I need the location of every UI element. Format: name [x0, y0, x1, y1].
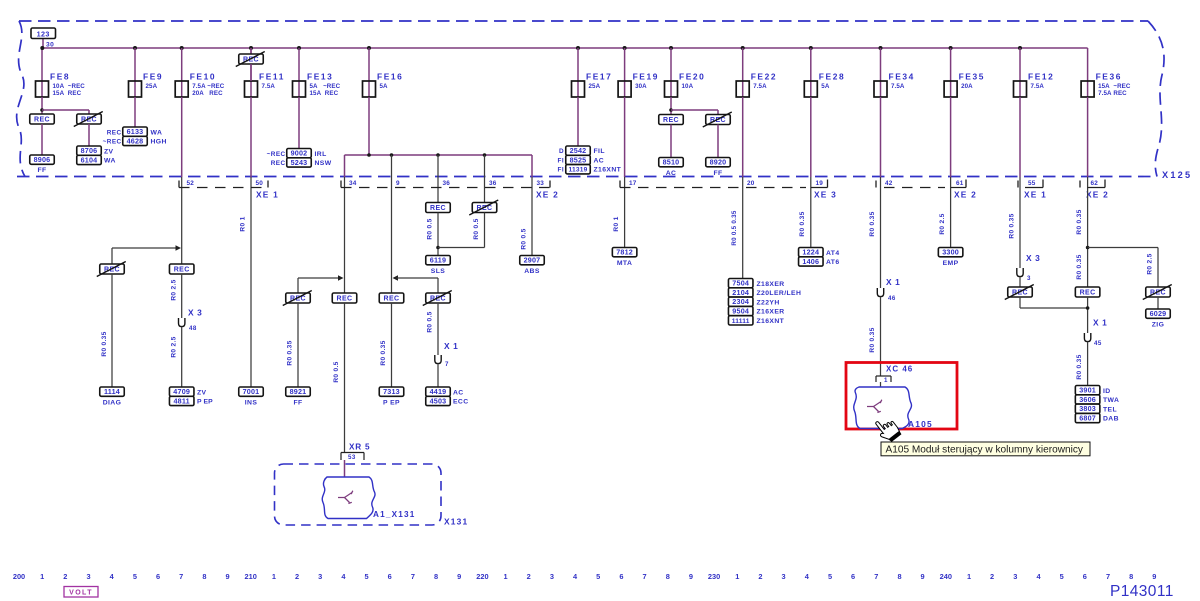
svg-text:XR 5: XR 5 — [349, 443, 370, 452]
VOLT legend box — [64, 587, 98, 598]
svg-text:8525: 8525 — [570, 155, 587, 164]
red highlight box around A105 — [846, 363, 957, 430]
svg-text:7: 7 — [411, 572, 415, 581]
svg-text:123: 123 — [37, 30, 50, 39]
svg-text:R0 0.35: R0 0.35 — [380, 340, 387, 365]
fuse FE35 at x=950.6 — [949, 46, 953, 50]
wire FE13 output — [298, 97, 300, 149]
svg-text:4: 4 — [1036, 572, 1041, 581]
svg-text:R0 0.35: R0 0.35 — [1076, 254, 1083, 279]
svg-text:~REC: ~REC — [267, 151, 286, 158]
svg-text:Z22YH: Z22YH — [757, 299, 780, 306]
svg-text:R0 0.5: R0 0.5 — [473, 218, 480, 239]
svg-text:1: 1 — [504, 572, 508, 581]
svg-text:62: 62 — [1091, 180, 1099, 187]
svg-text:EMP: EMP — [943, 260, 959, 267]
svg-text:2: 2 — [63, 572, 67, 581]
svg-text:240: 240 — [940, 572, 952, 581]
svg-text:7.5A ~REC: 7.5A ~REC — [192, 83, 225, 90]
svg-text:52: 52 — [187, 180, 195, 187]
svg-text:4503: 4503 — [430, 396, 447, 405]
wire R0 2.5 to X3 — [181, 274, 183, 318]
svg-text:8906: 8906 — [34, 155, 51, 164]
connector XE2 (pins 42, 61) — [875, 181, 877, 188]
svg-text:3803: 3803 — [1079, 404, 1096, 413]
fuse box X125 border — [17, 21, 1164, 177]
svg-text:6133: 6133 — [127, 127, 144, 136]
svg-text:46: 46 — [888, 295, 896, 302]
svg-text:FE13: FE13 — [307, 72, 333, 82]
connector XE1 (pin 55) — [1017, 181, 1019, 188]
wire to 8906 — [41, 124, 43, 155]
wire pin9 down — [391, 189, 393, 294]
svg-text:42: 42 — [885, 180, 893, 187]
svg-text:ZIG: ZIG — [1152, 322, 1165, 329]
terminal 123 — [42, 39, 44, 49]
svg-text:3: 3 — [318, 572, 322, 581]
svg-text:4419: 4419 — [430, 387, 447, 396]
component 1114 DIAG — [100, 387, 125, 396]
option box REC crossed (FE20 branch) — [706, 115, 731, 125]
svg-text:220: 220 — [476, 572, 488, 581]
svg-text:Z18XER: Z18XER — [757, 281, 785, 288]
component 2542 FIL / 8525 AC / 11319 Z16XNT — [566, 146, 591, 155]
component 2907 ABS — [520, 256, 545, 265]
svg-text:9: 9 — [689, 572, 693, 581]
option box REC (SLS) — [426, 203, 451, 213]
svg-text:7.5A: 7.5A — [1031, 83, 1045, 90]
svg-text:Z20LER/LEH: Z20LER/LEH — [757, 290, 802, 297]
svg-text:4: 4 — [573, 572, 578, 581]
wire R0 0.35 to XC46 — [880, 297, 882, 376]
svg-text:FF: FF — [37, 167, 46, 174]
option box REC (pin52 main) — [169, 264, 194, 274]
svg-text:4628: 4628 — [127, 136, 144, 145]
svg-text:5A: 5A — [380, 83, 389, 90]
component 9002 IRL / 5243 NSW — [287, 149, 312, 158]
svg-text:7.5A: 7.5A — [262, 83, 276, 90]
fuse FE19 at x=624.6 — [623, 46, 627, 50]
svg-text:8510: 8510 — [663, 158, 680, 167]
svg-text:FE35: FE35 — [959, 72, 985, 82]
svg-text:15A REC: 15A REC — [310, 90, 339, 97]
node at y=308 — [1087, 297, 1089, 333]
svg-text:A105: A105 — [908, 419, 933, 429]
svg-text:7812: 7812 — [616, 248, 633, 257]
wire FE16 output — [368, 97, 370, 155]
wire R0 0.35 to 8921 — [297, 303, 299, 387]
svg-text:5: 5 — [596, 572, 600, 581]
svg-text:P EP: P EP — [197, 399, 213, 406]
svg-text:7504: 7504 — [732, 279, 749, 288]
option box REC (crossed) above fuse FE11 — [250, 48, 252, 54]
svg-text:HGH: HGH — [151, 139, 167, 146]
svg-text:FE28: FE28 — [819, 72, 845, 82]
svg-text:REC: REC — [384, 295, 400, 302]
svg-text:FE17: FE17 — [586, 72, 612, 82]
svg-text:1114: 1114 — [104, 387, 120, 396]
svg-text:1224: 1224 — [802, 248, 819, 257]
svg-text:AT6: AT6 — [826, 259, 840, 266]
svg-text:R0 0.5: R0 0.5 — [333, 361, 340, 382]
wire FE22 to pin 20 — [742, 97, 744, 177]
svg-text:AC: AC — [453, 389, 464, 396]
svg-text:5: 5 — [365, 572, 369, 581]
wire pin50 R0 1 to 7001 — [250, 189, 252, 388]
svg-text:X 3: X 3 — [188, 308, 202, 318]
wire FE20 output — [670, 97, 672, 115]
svg-text:REC: REC — [34, 116, 50, 123]
svg-text:~REC: ~REC — [103, 139, 122, 146]
svg-text:2: 2 — [295, 572, 299, 581]
wire pin33 R0 0.5 to ABS — [531, 189, 533, 256]
wire pin55 R0 0.35 to X3 — [1019, 189, 1021, 269]
svg-text:ID: ID — [1103, 388, 1111, 395]
svg-text:2: 2 — [527, 572, 531, 581]
component 8706 ZV / 6104 WA — [77, 146, 102, 155]
wire FE17 output — [577, 97, 579, 146]
wire FE19 to pin 17 — [624, 97, 626, 177]
fuse FE10 at x=181.7 — [180, 46, 184, 50]
option box REC crossed (pin55) — [1019, 277, 1021, 287]
svg-text:45: 45 — [1094, 340, 1102, 347]
svg-text:R0 2.5: R0 2.5 — [939, 213, 946, 234]
svg-text:7.5A: 7.5A — [753, 83, 767, 90]
svg-text:2542: 2542 — [570, 146, 587, 155]
svg-text:25A: 25A — [146, 83, 158, 90]
component box X131 dashed border — [275, 464, 442, 525]
svg-text:1: 1 — [735, 572, 739, 581]
component 4709 ZV / 4811 PEP — [169, 387, 194, 396]
svg-text:9: 9 — [225, 572, 229, 581]
fuse FE12 at x=1020 — [1018, 46, 1022, 50]
svg-text:6: 6 — [156, 572, 160, 581]
svg-text:FE9: FE9 — [143, 72, 163, 82]
connector XE2 (pin 62) — [1079, 181, 1081, 188]
svg-text:8: 8 — [1129, 572, 1133, 581]
svg-text:X125: X125 — [1162, 170, 1192, 180]
svg-text:NSW: NSW — [315, 160, 332, 167]
svg-text:REC: REC — [430, 205, 446, 212]
fuse FE34 at x=880.5 — [879, 46, 883, 50]
svg-text:6: 6 — [388, 572, 392, 581]
component 7001 INS — [239, 387, 264, 396]
svg-text:X 1: X 1 — [444, 341, 458, 351]
option box REC crossed (8921 branch) — [286, 293, 311, 303]
svg-text:9: 9 — [1152, 572, 1156, 581]
svg-text:230: 230 — [708, 572, 720, 581]
svg-text:R0 2.5: R0 2.5 — [171, 336, 178, 357]
svg-text:25A: 25A — [589, 83, 601, 90]
svg-text:5: 5 — [828, 572, 832, 581]
svg-text:1: 1 — [967, 572, 971, 581]
component 7504/2104/2304/9504/11111 engine variants — [728, 279, 753, 288]
option box REC (pin9 main) — [379, 293, 404, 303]
svg-text:XE 2: XE 2 — [954, 190, 977, 200]
connector XE2 (pins 34, 9, 36, 36, 33) — [340, 181, 342, 188]
svg-text:36: 36 — [443, 180, 451, 187]
wire to 8706 — [88, 124, 90, 146]
splice symbol inside A105 — [867, 400, 882, 413]
component 3300 EMP — [938, 248, 963, 257]
wire R0 0.35 to 7313 — [391, 303, 393, 387]
fuse FE11 at x=251 — [249, 46, 253, 50]
connector XE1 (pins 52, 50) — [178, 181, 180, 188]
svg-text:MTA: MTA — [617, 260, 632, 267]
svg-text:REC: REC — [104, 266, 120, 273]
svg-text:R0 0.5 0.35: R0 0.5 0.35 — [731, 210, 738, 246]
svg-text:FE19: FE19 — [633, 72, 659, 82]
svg-text:8: 8 — [897, 572, 901, 581]
svg-text:6: 6 — [851, 572, 855, 581]
svg-text:R0 0.35: R0 0.35 — [1076, 209, 1083, 234]
hand cursor — [872, 414, 902, 445]
svg-text:20: 20 — [747, 180, 755, 187]
svg-text:6104: 6104 — [81, 155, 98, 164]
svg-text:SLS: SLS — [431, 268, 445, 275]
svg-text:10A ~REC: 10A ~REC — [53, 83, 86, 90]
svg-text:7: 7 — [179, 572, 183, 581]
svg-text:50: 50 — [256, 180, 264, 187]
svg-text:REC: REC — [290, 295, 306, 302]
svg-text:210: 210 — [245, 572, 257, 581]
component 7812 MTA — [612, 248, 637, 257]
wire FE35 to pin 61 — [950, 97, 952, 177]
wire pin17 R0 1 to MTA — [624, 189, 626, 248]
svg-text:FE34: FE34 — [889, 72, 915, 82]
fuse FE20 at x=671 — [669, 46, 673, 50]
wire to 4419 — [437, 364, 439, 387]
wire R0 0.35 to 1114 — [111, 274, 113, 387]
svg-text:X 1: X 1 — [886, 277, 900, 287]
svg-text:3: 3 — [550, 572, 554, 581]
svg-text:XE 1: XE 1 — [1024, 190, 1047, 200]
svg-text:30A: 30A — [635, 83, 647, 90]
component 6119 SLS — [426, 256, 451, 265]
wire pin53 into A1_X131 — [344, 460, 346, 477]
component 8906 FF — [30, 155, 55, 164]
svg-text:FE12: FE12 — [1028, 72, 1054, 82]
svg-text:FI: FI — [558, 157, 564, 164]
svg-text:P143011: P143011 — [1110, 583, 1174, 600]
component 7313 PEP — [379, 387, 404, 396]
svg-text:2304: 2304 — [732, 297, 749, 306]
svg-text:R0 0.35: R0 0.35 — [869, 327, 876, 352]
svg-text:DAB: DAB — [1103, 416, 1119, 423]
svg-text:33: 33 — [537, 180, 545, 187]
svg-text:7.5A REC: 7.5A REC — [1098, 90, 1127, 97]
wire pin20 R0 0.5 0.35 to engine boxes — [742, 189, 744, 279]
svg-text:4: 4 — [341, 572, 346, 581]
svg-text:3300: 3300 — [942, 248, 959, 257]
svg-text:6807: 6807 — [1079, 414, 1096, 423]
svg-text:TWA: TWA — [1103, 397, 1119, 404]
svg-text:8921: 8921 — [290, 387, 307, 396]
svg-text:R0 0.5: R0 0.5 — [521, 228, 528, 249]
option box REC crossed (ECC branch) — [426, 293, 451, 303]
svg-text:2: 2 — [990, 572, 994, 581]
wire bus XE2 feed — [345, 154, 533, 156]
svg-text:48: 48 — [189, 325, 197, 332]
node branch y=278 to FF — [298, 277, 340, 279]
svg-text:4811: 4811 — [173, 396, 189, 405]
svg-text:R0 1: R0 1 — [613, 216, 620, 231]
svg-text:1406: 1406 — [802, 257, 819, 266]
svg-text:TEL: TEL — [1103, 406, 1117, 413]
svg-text:X 1: X 1 — [1093, 318, 1107, 328]
svg-text:XE 2: XE 2 — [1086, 190, 1109, 200]
svg-text:ABS: ABS — [524, 268, 540, 275]
svg-text:REC: REC — [1150, 289, 1166, 296]
component 6133 WA / 4628 HGH — [123, 127, 148, 136]
option box REC (pin62 main) — [1075, 287, 1100, 297]
svg-text:REC: REC — [1012, 289, 1028, 296]
svg-text:61: 61 — [956, 180, 964, 187]
option box REC crossed (FE8 branch) — [77, 114, 102, 124]
svg-text:ECC: ECC — [453, 399, 469, 406]
svg-text:6029: 6029 — [1150, 309, 1167, 318]
svg-text:11111: 11111 — [732, 318, 750, 325]
svg-text:4: 4 — [110, 572, 115, 581]
wire FE36 to pin 62 — [1087, 97, 1089, 177]
svg-text:34: 34 — [349, 180, 357, 187]
svg-text:36: 36 — [489, 180, 497, 187]
svg-text:9504: 9504 — [732, 307, 749, 316]
svg-text:DIAG: DIAG — [103, 400, 122, 407]
svg-text:53: 53 — [348, 454, 356, 461]
svg-text:R0 2.5: R0 2.5 — [1147, 253, 1154, 274]
svg-text:Z16XNT: Z16XNT — [757, 318, 785, 325]
svg-text:3: 3 — [86, 572, 90, 581]
svg-text:FIL: FIL — [594, 148, 605, 155]
svg-text:XE 1: XE 1 — [256, 190, 279, 200]
svg-text:X131: X131 — [444, 517, 468, 527]
svg-text:FE16: FE16 — [377, 72, 403, 82]
svg-text:6: 6 — [1083, 572, 1087, 581]
svg-text:3606: 3606 — [1079, 395, 1096, 404]
svg-text:20A REC: 20A REC — [192, 90, 223, 97]
svg-text:7313: 7313 — [383, 387, 400, 396]
svg-text:7: 7 — [643, 572, 647, 581]
svg-text:8: 8 — [202, 572, 206, 581]
svg-text:FE8: FE8 — [50, 72, 70, 82]
wire FE10 to pin 52 — [181, 97, 183, 177]
svg-text:AT4: AT4 — [826, 250, 840, 257]
svg-text:4709: 4709 — [173, 387, 190, 396]
option box REC (pin34 main) — [332, 293, 357, 303]
wire joining node at y=308 — [1019, 297, 1021, 308]
svg-text:WA: WA — [104, 158, 116, 165]
svg-text:REC: REC — [1080, 289, 1096, 296]
svg-text:Z16XER: Z16XER — [757, 309, 785, 316]
svg-text:55: 55 — [1028, 180, 1036, 187]
fuse FE8 at x=42 — [41, 48, 43, 97]
svg-text:2104: 2104 — [732, 288, 749, 297]
svg-text:IRL: IRL — [315, 151, 327, 158]
wire to 8510 — [670, 125, 672, 158]
wire to 8920 — [717, 125, 719, 158]
svg-text:REC: REC — [243, 56, 259, 63]
wire pin36b down — [484, 189, 486, 203]
wire pin61 R0 2.5 to EMP — [950, 189, 952, 248]
wire pin52 down — [181, 189, 183, 265]
component 8920 FF — [706, 158, 731, 167]
svg-text:FE36: FE36 — [1096, 72, 1122, 82]
svg-text:XE 2: XE 2 — [536, 190, 559, 200]
svg-text:ZV: ZV — [104, 148, 114, 155]
fuse FE36 at x=1087.6 — [1087, 48, 1089, 97]
node branch y=247 to ZIG — [1086, 246, 1090, 250]
svg-text:1: 1 — [272, 572, 276, 581]
svg-text:1: 1 — [884, 377, 888, 384]
svg-text:200: 200 — [13, 572, 25, 581]
node branch at y=248 with arrow — [112, 247, 177, 249]
svg-text:REC: REC — [710, 117, 726, 124]
svg-text:REC: REC — [337, 295, 353, 302]
wire R0 0.5 joining — [484, 213, 486, 248]
svg-text:R0 0.35: R0 0.35 — [1076, 354, 1083, 379]
fuse FE16 at x=369 — [367, 46, 371, 50]
svg-text:AC: AC — [666, 170, 677, 177]
wire R0 2.5 to 4709 — [181, 327, 183, 387]
svg-text:2907: 2907 — [524, 256, 541, 265]
svg-text:15A REC: 15A REC — [53, 90, 82, 97]
svg-text:8706: 8706 — [81, 146, 98, 155]
svg-text:3: 3 — [1027, 275, 1031, 282]
svg-text:REC: REC — [174, 266, 190, 273]
wire FE12 to pin 55 — [1019, 97, 1021, 177]
wire drops to XE2 pins — [344, 155, 346, 177]
svg-text:R0 0.5: R0 0.5 — [427, 218, 434, 239]
svg-text:WA: WA — [151, 129, 163, 136]
wire R0 0.5 down to XR5 — [344, 303, 346, 453]
svg-text:17: 17 — [629, 180, 637, 187]
svg-text:8: 8 — [434, 572, 438, 581]
component A105 cloud symbol — [854, 387, 912, 429]
svg-text:3901: 3901 — [1079, 386, 1096, 395]
svg-text:D: D — [559, 148, 564, 155]
svg-text:3: 3 — [782, 572, 786, 581]
svg-text:7: 7 — [874, 572, 878, 581]
svg-text:XE 3: XE 3 — [814, 190, 837, 200]
svg-text:15A ~REC: 15A ~REC — [1098, 83, 1131, 90]
svg-text:3: 3 — [1013, 572, 1017, 581]
svg-text:XC 46: XC 46 — [886, 365, 913, 374]
svg-text:AC: AC — [594, 157, 605, 164]
svg-text:19: 19 — [816, 180, 824, 187]
wire FE34 to pin 42 — [880, 97, 882, 177]
component 3901 ID / 3606 TWA / 3803 TEL / 6807 DAB — [1075, 386, 1100, 395]
component 8510 AC — [659, 158, 684, 167]
svg-text:5A ~REC: 5A ~REC — [310, 83, 341, 90]
component 4419 AC / 4503 ECC — [426, 387, 451, 396]
svg-text:INS: INS — [245, 400, 258, 407]
wire FE28 to pin 19 — [810, 97, 812, 177]
svg-text:Z16XNT: Z16XNT — [594, 167, 622, 174]
svg-text:R0 1: R0 1 — [240, 216, 247, 231]
wire FE11 to pin 50 — [250, 97, 252, 177]
svg-text:8: 8 — [666, 572, 670, 581]
svg-text:FE11: FE11 — [259, 72, 285, 82]
svg-text:7.5A: 7.5A — [891, 83, 905, 90]
wire pin36a down — [437, 189, 439, 203]
option box REC crossed (DIAG branch) — [100, 264, 125, 274]
svg-text:5A: 5A — [821, 83, 830, 90]
connector XE3 (pins 17, 20, 19) — [619, 181, 621, 188]
node branch y=278 to ECC — [393, 275, 399, 281]
svg-text:R0 0.35: R0 0.35 — [1009, 213, 1016, 238]
svg-text:FE20: FE20 — [679, 72, 705, 82]
